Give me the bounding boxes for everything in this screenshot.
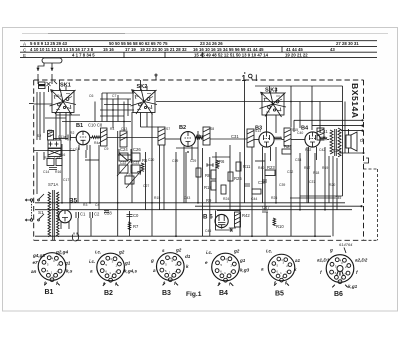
svg-text:C46: C46 [205,229,211,233]
table column ticks [123,52,125,57]
IF coil S5 [48,131,54,141]
resistor R14 [211,181,216,190]
svg-text:41 44 45: 41 44 45 [286,47,303,52]
svg-text:B5: B5 [69,198,78,205]
svg-text:C43: C43 [184,196,190,200]
left border stub [29,103,34,105]
rectifier tube B6 [215,210,240,230]
svg-text:43: 43 [330,47,335,52]
svg-text:S13: S13 [255,129,261,133]
aerial arrows [36,68,39,71]
connector P [242,74,247,83]
svg-text:S7: S7 [166,127,170,131]
svg-text:k,s: k,s [66,269,73,274]
pickup bracket [364,158,369,163]
svg-text:C25: C25 [126,173,132,177]
B+ buses [35,202,345,204]
svg-text:g: g [150,258,154,263]
svg-text:R10: R10 [276,224,284,229]
cap C11 [68,135,70,141]
svg-text:C45: C45 [335,196,341,200]
svg-text:k: k [186,264,189,269]
svg-text:C23: C23 [133,161,139,165]
svg-text:C7: C7 [112,94,116,98]
svg-text:15 45 49 48 52 12 51 50 13 9 1: 15 45 49 48 52 12 51 50 13 9 10 47 14 [194,53,269,58]
svg-text:50 50 55 56 58 60 62 65 70 75: 50 50 55 56 58 60 62 65 70 75 [109,41,168,46]
svg-text:i.c.: i.c. [95,250,101,255]
aerial rod [42,58,62,63]
svg-text:a: a [261,267,264,272]
svg-text:C34: C34 [333,148,341,153]
svg-text:17 19: 17 19 [125,47,136,52]
svg-text:S2: S2 [37,134,41,138]
svg-text:R19: R19 [322,166,328,170]
tube B4 [305,132,320,153]
aerial lead wires [38,63,44,71]
svg-text:s: s [162,248,165,253]
svg-text:S8: S8 [210,127,214,131]
svg-text:a1: a1 [295,258,301,263]
IF coil S7 [158,127,165,145]
svg-text:4 10 10 11 12 13 14 15 16 17 3: 4 10 10 11 12 13 14 15 16 17 3 8 [30,47,94,52]
left RC cluster [47,140,62,170]
svg-text:C39: C39 [279,183,285,187]
svg-text:5 6 8 9 13 25 29 43: 5 6 8 9 13 25 29 43 [30,41,68,46]
resistor R25 [228,172,233,181]
resistor near B1 [92,136,100,139]
resistor R8 [211,170,216,179]
svg-text:R24: R24 [223,197,229,201]
wires below SK1 [55,113,57,141]
wiring table rules [20,41,377,58]
svg-text:15 16: 15 16 [103,47,114,52]
loudspeaker [346,129,357,153]
svg-text:B5: B5 [275,291,284,298]
table row 1 digits [30,41,359,46]
wires below SK2 [140,113,142,128]
svg-text:R26: R26 [271,196,277,200]
svg-text:Fig.1: Fig.1 [186,291,202,298]
svg-text:R40: R40 [258,166,264,170]
svg-text:i.c.: i.c. [206,250,212,255]
svg-text:C41: C41 [320,129,328,134]
resistor R7 [128,222,131,230]
svg-text:R30: R30 [44,156,50,160]
svg-text:C29: C29 [190,159,196,163]
tube B1 [76,131,90,150]
svg-text:C42: C42 [319,148,325,152]
B1 pin drops [77,150,79,203]
upper wire mesh [94,102,96,123]
svg-text:BX514A: BX514A [350,83,360,118]
svg-text:C31: C31 [231,134,239,139]
misc labels upper [88,123,341,191]
svg-text:g2: g2 [118,250,125,255]
tube B3 [259,132,274,153]
svg-text:a: a [90,269,93,274]
svg-text:B1: B1 [76,123,83,129]
cap C35 [207,163,213,167]
oscillator trimmer cluster [117,149,141,188]
coil unit SK2 [131,80,158,115]
svg-text:B 6: B 6 [203,214,213,221]
svg-text:C28: C28 [104,211,112,216]
svg-text:C15: C15 [54,156,60,160]
svg-text:d: d [360,138,363,144]
connector tick mid [155,76,157,80]
svg-text:g2,g4: g2,g4 [55,250,68,255]
output rails to border [294,119,363,121]
svg-text:SK1: SK1 [60,83,71,89]
headphone jack [73,233,79,242]
cap C36 [244,184,250,186]
svg-text:g: g [329,248,333,253]
svg-text:19 22 23 30 15 21 28 32: 19 22 23 30 15 21 28 32 [140,47,187,52]
top bus wires [255,85,343,87]
svg-text:B3: B3 [162,290,171,297]
svg-text:R23: R23 [267,165,275,170]
svg-text:R18: R18 [313,171,319,175]
svg-text:19 20 21 22: 19 20 21 22 [285,53,308,58]
svg-text:C38: C38 [258,180,266,185]
svg-text:g2: g2 [233,249,240,254]
svg-text:S71A: S71A [48,182,58,187]
svg-text:C37: C37 [309,180,315,184]
svg-text:C26: C26 [133,147,141,152]
svg-text:1: 1 [242,74,247,83]
IF coil S8 [203,127,210,145]
socket B5 [268,254,294,285]
svg-text:B1: B1 [45,289,54,296]
svg-text:S4: S4 [57,94,61,98]
antenna input components [39,82,46,89]
svg-text:B2: B2 [104,290,113,297]
svg-text:B2: B2 [179,125,186,131]
antenna feed verticals [36,92,38,140]
coil unit SK1 [50,80,77,115]
svg-text:R21: R21 [284,144,292,149]
svg-text:R7: R7 [133,224,139,229]
chassis dashed border [34,80,364,240]
svg-text:614764: 614764 [339,242,353,247]
mid step wires [118,154,131,156]
resistor R5 [141,163,144,171]
svg-text:C44: C44 [251,197,257,201]
mains plug [30,199,32,201]
svg-text:C1: C1 [80,212,86,217]
svg-text:a1,D1: a1,D1 [317,258,330,263]
svg-text:R20: R20 [329,183,335,187]
svg-text:C19: C19 [172,159,178,163]
svg-text:g2: g2 [175,248,182,253]
svg-text:k,g4,s: k,g4,s [124,269,137,274]
svg-text:g1: g1 [64,261,71,266]
svg-text:C0: C0 [133,213,139,218]
cap C47 [262,210,268,212]
svg-text:k: k [294,267,297,272]
svg-text:C20: C20 [148,158,154,162]
svg-text:C14: C14 [43,170,49,174]
svg-text:g1: g1 [239,258,246,263]
svg-text:S K3: S K3 [265,88,277,94]
socket B3 [157,253,185,286]
svg-text:R8: R8 [205,173,211,178]
faint scan line [22,33,388,35]
resistor R23 [265,170,275,176]
svg-text:S3: S3 [47,134,51,138]
ground arrow under B6 [229,228,236,232]
coupling cap C41 [317,128,324,140]
svg-text:C32: C32 [287,170,293,174]
svg-text:g4,g3: g4,g3 [32,253,45,258]
svg-text:C9: C9 [104,147,108,151]
cap C0 [129,211,131,236]
svg-text:R2: R2 [70,131,74,135]
svg-text:R4a: R4a [94,141,100,145]
svg-text:g1: g1 [124,261,131,266]
drawing number [339,242,353,247]
svg-text:R42: R42 [242,213,250,218]
svg-text:B4: B4 [219,290,228,297]
svg-text:C6: C6 [89,94,93,98]
svg-text:C22: C22 [120,161,126,165]
resistor R14a [196,168,201,177]
svg-text:R3: R3 [83,203,87,207]
svg-text:S15: S15 [292,128,298,132]
mid wire mesh verticals [209,157,211,236]
svg-text:C13: C13 [121,127,127,131]
svg-text:R22: R22 [305,148,311,152]
svg-text:R14: R14 [204,185,212,190]
svg-text:a: a [153,268,156,273]
resistor R6 [216,160,219,168]
svg-text:an: an [31,269,37,274]
svg-text:E: E [23,53,26,58]
resistor R13 [252,189,261,194]
svg-text:R9: R9 [206,198,212,203]
table row 2 digits [30,47,335,52]
resistor R12 [221,185,226,194]
gram input dashed box [364,169,378,240]
svg-text:SK2: SK2 [137,84,148,90]
svg-text:C27: C27 [143,184,149,188]
socket B2 [97,253,125,286]
table row labels [23,42,27,58]
svg-text:S5: S5 [48,129,52,133]
B5 surroundings caps [76,212,79,218]
tube B2 [181,132,196,152]
socket B4 [212,253,240,286]
svg-text:C24: C24 [120,147,128,152]
tube row connecting wires [54,138,69,140]
tube B5 [59,210,72,229]
power transformer S1 [48,190,59,240]
svg-text:C30: C30 [196,134,204,139]
svg-text:i.c.: i.c. [89,259,95,264]
svg-text:R6: R6 [219,159,225,164]
svg-text:C17: C17 [63,178,69,182]
svg-text:C4: C4 [95,203,99,207]
IF coil S6 [101,128,108,146]
svg-text:R17: R17 [304,166,310,170]
table row 3 digits [72,53,308,58]
right inner chassis line [342,86,344,196]
cap box right of B1 [120,131,127,147]
IF coil S10 [284,128,291,146]
svg-text:k,g3: k,g3 [240,268,250,273]
svg-text:C33: C33 [295,158,301,162]
BX514A model label [350,83,360,118]
svg-text:a2,D2: a2,D2 [355,258,368,263]
svg-text:R25: R25 [234,176,242,181]
svg-text:23 24 26 26: 23 24 26 26 [200,41,223,46]
IF coil S9 [247,129,254,147]
svg-text:R11: R11 [243,164,251,169]
svg-text:C47: C47 [262,205,270,210]
resistor R43 [235,212,241,227]
Fig.1 caption [186,291,202,298]
svg-text:e7: e7 [33,260,39,265]
coil unit SK3 [260,86,287,117]
svg-text:k,g1: k,g1 [348,284,358,289]
svg-text:27 28 30 31: 27 28 30 31 [336,41,359,46]
svg-text:d1: d1 [185,254,191,259]
svg-text:C2: C2 [94,212,100,217]
svg-text:C10 C8: C10 C8 [88,123,103,128]
svg-text:R15: R15 [154,196,160,200]
wires below SK3 [266,115,268,132]
svg-text:16 16 10 16 15 34 55 56 59 41: 16 16 10 16 15 34 55 56 59 41 44 45 [193,47,264,52]
output transformer S17 S18 [330,128,341,157]
svg-text:e: e [205,260,208,265]
cap C38 [262,180,267,182]
resistor R11 [236,162,241,171]
resistor R21 [282,149,291,154]
svg-text:R4: R4 [110,127,114,131]
mains switch [39,194,44,199]
svg-text:1k: 1k [76,147,80,151]
svg-text:B6: B6 [334,291,343,298]
svg-text:C11a: C11a [58,135,66,139]
socket B6 [326,255,354,288]
resistor R10 [273,218,276,226]
socket B1 [38,253,66,286]
svg-text:R16: R16 [55,170,61,174]
svg-text:i.c.: i.c. [266,249,272,254]
svg-text:4 1 7 8 34 5: 4 1 7 8 34 5 [72,53,95,58]
